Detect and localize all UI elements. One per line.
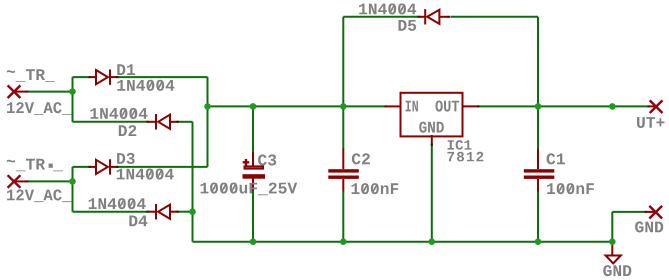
label D4 — [129, 216, 147, 227]
label 1N4004 D5 — [359, 3, 416, 14]
label 1N4004 D2 — [90, 108, 147, 119]
wire GND out horizontal — [612, 211, 646, 213]
wire C2 branch bottom — [342, 191, 344, 242]
pin GND right — [645, 206, 663, 219]
node C2/D5 top junction — [340, 103, 347, 110]
wire D5 top right — [451, 16, 538, 18]
label 1N4004 D1 — [117, 80, 174, 91]
label UT+ — [637, 117, 665, 128]
wire C3 branch bottom — [252, 190, 254, 242]
wire GND out vertical — [611, 212, 613, 242]
wire D3 row right — [117, 166, 208, 168]
capacitor C3 (polarized electrolytic) — [243, 152, 266, 191]
diode D3 — [89, 159, 119, 174]
label ~_TR._ pin 2 (part 1) — [16, 159, 45, 172]
wire mid vertical to rail — [192, 122, 194, 242]
label GND bottom — [603, 265, 631, 276]
label D1 — [117, 64, 135, 75]
diode D2 — [147, 114, 180, 129]
label C3 — [258, 154, 276, 165]
pin X1 — [8, 85, 29, 98]
wire D4 row right — [178, 211, 193, 213]
diode D4 — [147, 204, 180, 219]
node bus/main junction — [204, 103, 211, 110]
label ~_TR._ pin 2 (square mark) — [49, 164, 53, 168]
node C3 rail junction — [250, 238, 257, 245]
label D5 — [399, 20, 417, 31]
wire left vertical block1 — [72, 77, 74, 122]
wire D2 row right — [178, 121, 193, 123]
label 1N4004 D4 — [89, 198, 146, 209]
label ~_TR._ pin 2 (part 2) — [53, 170, 63, 173]
node GND rail junction — [609, 238, 616, 245]
label 1N4004 D3 — [117, 169, 174, 180]
pin UT+ — [648, 100, 663, 113]
label GND pin of IC — [419, 122, 444, 133]
wire X2 to left vertical — [28, 180, 73, 182]
wire D2 row left — [73, 121, 149, 123]
diode D5 — [418, 9, 451, 24]
label IC1 — [448, 140, 472, 150]
wire IC GND branch — [431, 144, 433, 242]
ground symbol — [606, 242, 621, 264]
wire C3 branch top — [252, 106, 254, 152]
wire X1 to left vertical — [28, 91, 73, 93]
label 100nF C1 — [547, 183, 594, 194]
node X1 junction — [69, 88, 76, 95]
wire C1 branch top — [537, 106, 539, 149]
label IN — [406, 101, 418, 112]
node IC GND rail junction — [429, 238, 436, 245]
label OUT — [436, 101, 460, 112]
capacitor C2 — [328, 149, 359, 192]
wire left vertical block2 — [72, 167, 74, 212]
wire main line IC OUT to UT+ — [478, 105, 649, 107]
wire bottom rail — [193, 241, 613, 243]
node C3 top junction — [250, 103, 257, 110]
label 12V_AC_ pin 1 — [7, 102, 72, 115]
label 100nF C2 — [352, 183, 399, 194]
label D2 — [119, 125, 137, 136]
wire main line bus to IC IN — [208, 105, 386, 107]
label ~_TR._ pin 2 (tilde) — [7, 160, 15, 163]
wire D5 right vertical — [537, 17, 539, 107]
label GND right — [635, 221, 663, 232]
label C1 — [547, 153, 565, 164]
IC1 7812 voltage regulator box — [385, 93, 480, 146]
wire D1 row left — [73, 76, 92, 78]
wire C1 branch bottom — [537, 191, 539, 242]
node out junction — [609, 103, 616, 110]
wire D5 top left — [343, 16, 420, 18]
wire D1 row right — [117, 76, 208, 78]
node C1 rail junction — [535, 238, 542, 245]
node X2 junction — [69, 178, 76, 185]
wire C2 branch top — [342, 106, 344, 149]
wire right bus vertical — [207, 77, 209, 167]
node D4 junction — [189, 208, 196, 215]
label ~_TR_ pin 1 (tilde) — [7, 70, 15, 73]
label ~_TR_ pin 1 — [16, 69, 55, 82]
node C1/D5 top junction — [535, 103, 542, 110]
pin X2 — [8, 175, 29, 188]
label 7812 — [447, 152, 483, 162]
label D3 — [117, 153, 135, 164]
label 1000uF_25V — [201, 183, 298, 196]
capacitor C1 — [524, 149, 555, 192]
label 12V_AC_ pin 2 — [7, 189, 72, 202]
wire D3 row left — [73, 166, 92, 168]
wire D5 left vertical — [342, 17, 344, 107]
node C2 rail junction — [340, 238, 347, 245]
diode D1 — [89, 69, 119, 84]
wire D4 row left — [73, 211, 149, 213]
label C2 — [352, 153, 370, 164]
